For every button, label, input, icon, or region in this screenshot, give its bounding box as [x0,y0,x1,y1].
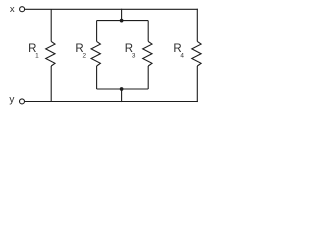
label R3 [125,43,136,60]
svg-text:4: 4 [180,53,184,60]
wire top rail [25,8,198,10]
terminal y [20,99,25,104]
wire bottom rail [25,101,198,103]
wire stub bottom [121,89,123,102]
label R1 [28,43,39,60]
junction dot bottom [120,87,124,91]
svg-text:y: y [9,95,14,106]
label R4 [173,43,184,60]
resistor R3 [143,21,152,89]
junction dot top [120,19,124,23]
svg-text:2: 2 [83,53,87,60]
wire inner top (R2-R3 top node) [97,20,149,22]
resistor R4 [192,9,201,102]
wire inner bottom (R2-R3 bottom node) [97,88,149,90]
label R2 [75,43,86,60]
svg-text:x: x [10,4,15,15]
terminal x [20,7,25,12]
resistor R2 [91,21,100,89]
svg-text:3: 3 [132,53,136,60]
resistor R1 [46,9,55,101]
svg-text:1: 1 [35,53,39,60]
wire stub top [121,9,123,21]
